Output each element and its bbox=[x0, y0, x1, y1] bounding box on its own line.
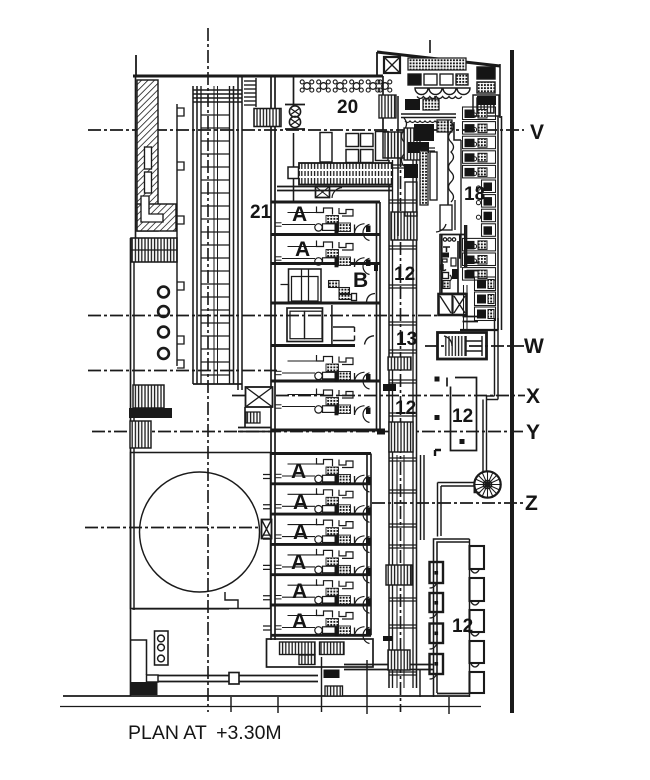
svg-text:Z: Z bbox=[525, 492, 538, 515]
svg-text:18: 18 bbox=[464, 184, 485, 205]
svg-text:PLAN AT +3.30M: PLAN AT +3.30M bbox=[128, 722, 282, 744]
svg-text:A: A bbox=[295, 238, 310, 261]
svg-text:12: 12 bbox=[394, 264, 415, 285]
svg-text:12: 12 bbox=[452, 616, 473, 637]
svg-text:A: A bbox=[291, 460, 306, 483]
svg-text:21: 21 bbox=[250, 202, 272, 223]
svg-text:A: A bbox=[292, 203, 307, 226]
svg-text:A: A bbox=[291, 551, 306, 574]
svg-text:V: V bbox=[530, 121, 544, 144]
svg-text:X: X bbox=[526, 385, 540, 408]
svg-text:13: 13 bbox=[396, 329, 417, 350]
svg-text:20: 20 bbox=[337, 97, 358, 118]
svg-text:A: A bbox=[293, 521, 308, 544]
svg-text:A: A bbox=[293, 491, 308, 514]
svg-text:Y: Y bbox=[526, 421, 540, 444]
svg-text:B: B bbox=[353, 269, 368, 292]
svg-text:A: A bbox=[292, 580, 307, 603]
svg-text:12: 12 bbox=[395, 398, 416, 419]
svg-text:W: W bbox=[524, 335, 544, 358]
svg-text:12: 12 bbox=[452, 406, 473, 427]
svg-text:A: A bbox=[292, 610, 307, 633]
